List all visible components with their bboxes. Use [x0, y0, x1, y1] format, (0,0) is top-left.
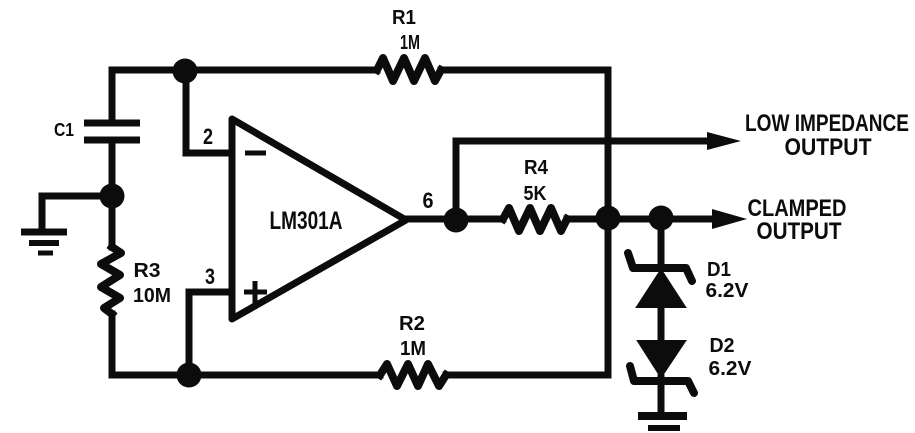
- svg-text:1M: 1M: [400, 32, 420, 54]
- junction dot: bottom wire / pin3: [177, 363, 202, 388]
- svg-text:LOW IMPEDANCE: LOW IMPEDANCE: [745, 110, 909, 137]
- svg-text:1M: 1M: [400, 338, 426, 360]
- svg-text:2: 2: [203, 124, 213, 149]
- wire: non-inverting input pin 3 branch: [189, 292, 229, 373]
- junction dot: zener branch / clamped line: [649, 206, 674, 231]
- arrow: low impedance output: [707, 132, 741, 150]
- capacitor C1: [84, 123, 140, 140]
- svg-text:6.2V: 6.2V: [706, 280, 750, 302]
- wire: R3 top to ground junction: [109, 196, 116, 247]
- resistor R3: [101, 247, 121, 314]
- wire: bottom left segment: [112, 314, 380, 375]
- wire: inverting input pin 2 branch: [186, 73, 229, 153]
- svg-text:5K: 5K: [524, 183, 547, 205]
- svg-text:R4: R4: [524, 157, 549, 179]
- svg-text:3: 3: [205, 264, 215, 289]
- junction dot: C1 / ground / R3: [100, 184, 125, 209]
- svg-text:D2: D2: [710, 335, 735, 357]
- svg-text:R3: R3: [134, 260, 161, 282]
- zener diode D2: [630, 341, 694, 393]
- resistor R1: [377, 58, 441, 81]
- junction dot: pin6 / low impedance branch: [444, 208, 469, 233]
- op-amp U1 LM301A: [232, 119, 406, 319]
- wire: between zener D1 and D2: [658, 306, 665, 341]
- svg-text:OUTPUT: OUTPUT: [785, 134, 872, 161]
- junction dot: top wire / pin2: [173, 59, 198, 84]
- arrow: clamped output: [712, 209, 747, 229]
- zener diode D1: [628, 253, 692, 307]
- wire: zener D2 to ground: [658, 378, 665, 412]
- svg-text:R1: R1: [392, 7, 416, 29]
- svg-text:OUTPUT: OUTPUT: [757, 218, 842, 245]
- svg-text:R2: R2: [399, 313, 425, 335]
- ground (below zener D2): [638, 416, 687, 428]
- wire: zener branch down from clamped line: [658, 219, 665, 264]
- wire: op-amp output to R4: [407, 216, 503, 223]
- svg-text:D1: D1: [707, 259, 731, 281]
- wire: bottom right segment R2 to right corner: [446, 372, 608, 379]
- wire: R1 right to top-right corner: [441, 67, 608, 74]
- svg-text:6: 6: [423, 188, 434, 213]
- wire: right vertical feedback line: [605, 70, 612, 375]
- junction dot: feedback line / clamped line: [596, 206, 621, 231]
- wire: top-left corner, cap C1 top to R1 left: [112, 70, 377, 122]
- wire: junction to capacitor C1 bottom plate: [109, 141, 116, 196]
- plus sign (non-inverting input): [244, 281, 267, 304]
- svg-text:LM301A: LM301A: [270, 207, 343, 235]
- resistor R2: [380, 364, 446, 386]
- wire: R4 right to clamped output arrow: [567, 216, 712, 223]
- svg-text:C1: C1: [54, 120, 74, 140]
- wire: ground branch from junction: [42, 196, 112, 228]
- svg-text:10M: 10M: [133, 285, 171, 307]
- minus sign (inverting input): [245, 151, 266, 156]
- svg-text:6.2V: 6.2V: [709, 358, 753, 380]
- ground (left, near C1): [21, 232, 67, 253]
- resistor R4: [503, 208, 567, 231]
- wire: low impedance branch up and right: [456, 141, 705, 219]
